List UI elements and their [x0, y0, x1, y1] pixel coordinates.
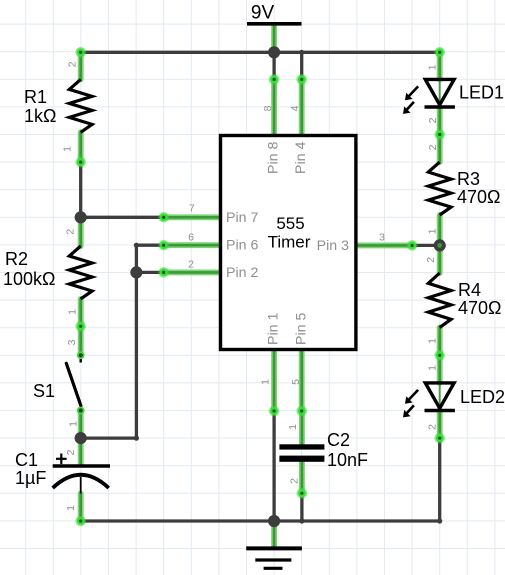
svg-text:9V: 9V: [251, 3, 275, 24]
wire: R1 to pin7 node vertical: [79, 162, 82, 217]
wire: LED2 cathode to bottom rail: [438, 438, 441, 521]
svg-text:1: 1: [427, 365, 439, 371]
C1 leg pin1: [78, 494, 84, 522]
svg-text:8: 8: [262, 105, 274, 111]
svg-text:Pin 8: Pin 8: [266, 142, 282, 174]
C2 leg pin1: [299, 411, 305, 444]
power 9V leg: [271, 26, 277, 53]
svg-text:2: 2: [65, 229, 77, 235]
R3 leg pin1: [437, 215, 443, 245]
junction: ground node on bottom rail: [268, 515, 280, 527]
svg-text:7: 7: [189, 203, 195, 215]
wire: feedback vertical (pin6/pin2 to switch node): [135, 245, 138, 438]
svg-text:6: 6: [188, 232, 194, 244]
LED LED1: [439, 79, 441, 104]
wire: switch node horizontal: [81, 436, 137, 439]
junction: R1/R2/pin7 node: [75, 211, 87, 223]
U1 pin 5 leg: [299, 351, 305, 412]
wire: C2 to bottom rail: [300, 493, 303, 521]
node: rail left corner: [75, 47, 86, 58]
wire: pin 3 to LED node: [412, 244, 440, 247]
wire: rail to pin 8 stub: [272, 52, 275, 79]
svg-text:Timer: Timer: [268, 233, 311, 252]
svg-text:Pin 3: Pin 3: [317, 238, 349, 254]
svg-text:2: 2: [427, 424, 439, 430]
U1 pin 1 leg: [271, 351, 277, 412]
node: pin3 wire end: [407, 240, 418, 251]
op-amp/IC U1 555 timer body: [221, 136, 356, 350]
junction: S1/C1 node: [75, 432, 87, 444]
svg-text:3: 3: [66, 339, 78, 345]
R4 leg pin1: [437, 327, 443, 355]
U1 pin 2 leg: [164, 269, 221, 275]
wire: pin7 node to pin 7: [81, 216, 164, 219]
switch S1 contact bottom: [77, 407, 85, 415]
junction: feedback wire bottom corner: [134, 436, 139, 441]
U1 pin 8 leg: [271, 79, 277, 134]
C2 leg pin2: [299, 462, 305, 494]
svg-text:1: 1: [260, 379, 272, 385]
node: C2 bottom wire end: [297, 488, 308, 499]
power symbol 9V bar: [247, 22, 302, 26]
node: pin1 wire end: [269, 406, 280, 417]
node: LED2 cathode wire end: [434, 433, 445, 444]
svg-text:1: 1: [62, 146, 74, 152]
capacitor C2: [279, 444, 324, 449]
svg-text:5: 5: [290, 379, 302, 385]
svg-text:R4: R4: [458, 280, 481, 300]
svg-text:Pin 7: Pin 7: [226, 210, 258, 226]
svg-text:1: 1: [427, 338, 439, 344]
R2 leg pin2: [78, 217, 84, 246]
node: pin5/C2 junction: [296, 406, 307, 417]
junction: C2 on bottom rail: [299, 518, 304, 523]
R1 leg pin2: [78, 52, 84, 79]
svg-text:4: 4: [289, 105, 301, 111]
LED2 leg pin1: [437, 355, 443, 383]
svg-text:470Ω: 470Ω: [458, 298, 502, 318]
svg-text:LED1: LED1: [459, 83, 504, 103]
svg-text:1: 1: [287, 424, 299, 430]
node: pin6 wire end: [158, 240, 169, 251]
R1 leg pin1: [78, 132, 84, 162]
svg-text:C2: C2: [327, 430, 350, 450]
svg-text:LED2: LED2: [460, 387, 505, 407]
svg-text:3: 3: [379, 232, 385, 244]
junction: pin6 corner: [134, 243, 139, 248]
S1 leg pin3: [78, 326, 84, 355]
resistor R3: [428, 162, 451, 215]
LED2 leg pin2: [437, 411, 443, 439]
wire: pin 1 to bottom rail: [272, 411, 275, 521]
node: R1 bottom wire end: [75, 157, 86, 168]
LED LED2: [439, 383, 441, 408]
svg-text:1: 1: [427, 64, 439, 70]
svg-text:1kΩ: 1kΩ: [24, 106, 56, 126]
wire: pin 6 horizontal: [136, 244, 163, 247]
node: pin4 stub end: [296, 74, 307, 85]
capacitor C1 (polarized): [53, 464, 110, 468]
svg-text:Pin 4: Pin 4: [293, 142, 309, 174]
svg-text:2: 2: [427, 117, 439, 123]
resistor R1: [69, 79, 92, 132]
R2 leg pin1: [78, 299, 84, 326]
svg-text:Pin 1: Pin 1: [266, 313, 282, 345]
svg-text:S1: S1: [33, 381, 55, 401]
switch S1 contact top: [77, 351, 85, 359]
wire: rail to pin 4 stub: [300, 52, 303, 79]
svg-text:Pin 6: Pin 6: [226, 238, 258, 254]
svg-text:Pin 2: Pin 2: [226, 265, 258, 281]
svg-text:100kΩ: 100kΩ: [3, 269, 56, 289]
U1 pin 4 leg: [299, 79, 305, 134]
svg-text:2: 2: [425, 257, 437, 263]
wire: ground bottom rail: [81, 519, 440, 522]
U1 pin 7 leg: [164, 214, 221, 220]
svg-text:R1: R1: [24, 87, 47, 107]
svg-text:2: 2: [66, 61, 78, 67]
ground symbol: [246, 546, 302, 550]
junction: pin4 stub on rail: [299, 50, 304, 55]
svg-text:1: 1: [427, 228, 439, 234]
node: pin7 wire end: [158, 212, 169, 223]
node: LED1/R3 junction: [434, 129, 445, 140]
svg-text:2: 2: [289, 478, 301, 484]
junction: 9V tap on rail: [268, 46, 280, 58]
svg-text:2: 2: [65, 449, 77, 455]
svg-text:R3: R3: [457, 169, 480, 189]
C1 leg pin2: [78, 438, 84, 464]
resistor R4: [428, 273, 451, 327]
switch S1: [79, 356, 81, 363]
U1 pin 3 leg: [356, 242, 412, 248]
svg-text:2: 2: [188, 259, 194, 271]
svg-text:2: 2: [427, 144, 439, 150]
U1 pin 6 leg: [164, 242, 221, 248]
LED1 leg pin1: [437, 52, 443, 79]
junction: pin3/R3/R4 node: [434, 239, 446, 251]
svg-text:470Ω: 470Ω: [457, 187, 501, 207]
ground leg: [271, 521, 277, 547]
wire: pin 2 horizontal: [136, 271, 163, 274]
svg-text:Pin 5: Pin 5: [294, 313, 310, 345]
svg-text:1µF: 1µF: [15, 468, 46, 488]
svg-text:555: 555: [276, 214, 304, 233]
junction: bottom rail right corner: [437, 518, 442, 523]
node: pin8 stub end: [269, 74, 280, 85]
node: C1 bottom rail corner: [75, 516, 86, 527]
node: R2/S1 junction: [75, 321, 86, 332]
node: R4/LED2 junction: [434, 350, 445, 361]
junction: pin2 on feedback wire: [130, 266, 142, 278]
node: rail right corner: [434, 47, 445, 58]
R4 leg pin2: [437, 245, 443, 273]
svg-text:R2: R2: [5, 249, 28, 269]
svg-text:1: 1: [65, 505, 77, 511]
node: pin2 wire end: [158, 267, 169, 278]
svg-text:10nF: 10nF: [327, 450, 368, 470]
svg-text:1: 1: [67, 309, 79, 315]
LED1 leg pin2: [437, 108, 443, 135]
S1 leg pin1: [78, 411, 84, 439]
R3 leg pin2: [437, 135, 443, 163]
C1 plus sign: [56, 458, 67, 460]
svg-text:C1: C1: [15, 450, 38, 470]
svg-text:1: 1: [68, 421, 80, 427]
wire: V+ top rail: [81, 51, 440, 54]
resistor R2: [69, 246, 92, 299]
